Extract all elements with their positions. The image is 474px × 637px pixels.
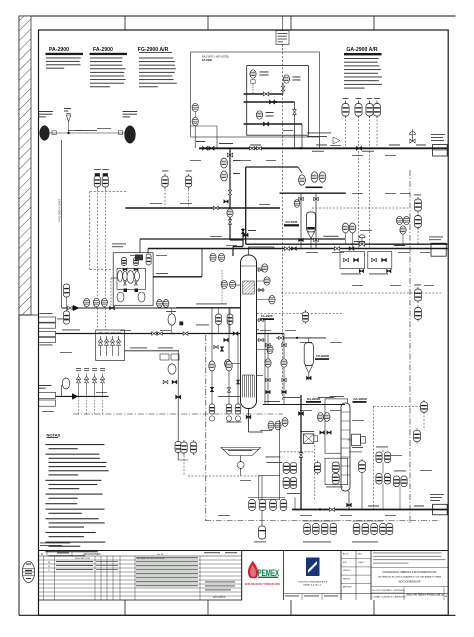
svg-text:ESC.: ESC.	[343, 562, 348, 564]
svg-text:MM.: MM.	[358, 554, 362, 556]
svg-text:FO-2905: FO-2905	[286, 220, 298, 224]
svg-text:DESCRIPCION: DESCRIPCION	[75, 558, 91, 560]
svg-text:No. DE CONTRATO: 418235824: No. DE CONTRATO: 418235824	[373, 589, 406, 592]
svg-text:No. M: No. M	[157, 554, 163, 556]
svg-text:PA-2900: PA-2900	[49, 47, 69, 53]
svg-text:FO-2905R: FO-2905R	[316, 354, 329, 358]
svg-text:FA-2900: FA-2900	[202, 58, 213, 62]
svg-text:DIAVAZ, S.A. DE C.V.: DIAVAZ, S.A. DE C.V.	[303, 584, 322, 587]
svg-text:NOTAS: NOTAS	[47, 433, 61, 438]
svg-text:FA-2905: FA-2905	[261, 314, 273, 318]
svg-text:E: E	[444, 595, 448, 597]
svg-text:REVISIONES: REVISIONES	[83, 552, 100, 556]
svg-text:APV-2007A: APV-2007A	[213, 596, 226, 599]
svg-text:GA-2900 A/R: GA-2900 A/R	[346, 47, 377, 53]
svg-text:DIBUJO: DIBUJO	[343, 570, 351, 572]
svg-text:APROBO: APROBO	[343, 586, 352, 589]
svg-text:S/ESC.: S/ESC.	[358, 562, 365, 564]
svg-text:DIAGRAMA DE TUBERIAS E INSTRUM: DIAGRAMA DE TUBERIAS E INSTRUMENTACION	[383, 571, 437, 574]
svg-text:MOTOGENERADOR: MOTOGENERADOR	[399, 580, 421, 583]
svg-text:BA 5 (PG Y HG VISTE): BA 5 (PG Y HG VISTE)	[202, 55, 229, 59]
svg-text:FA-2900: FA-2900	[93, 47, 113, 53]
svg-text:DA-2900R: DA-2900R	[354, 397, 367, 401]
svg-text:REVISO: REVISO	[343, 578, 351, 580]
svg-text:DICG-VR-TBEAA-44-BD (2 DE 3): DICG-VR-TBEAA-44-BD (2 DE 3)	[407, 592, 444, 596]
svg-text:SISTEMA DE ACONDICIONAMIENTO D: SISTEMA DE ACONDICIONAMIENTO DE GAS AMAR…	[378, 576, 442, 579]
svg-text:LUGAR: SONDA DE CAMPECHE: LUGAR: SONDA DE CAMPECHE	[373, 596, 407, 599]
svg-text:EXPLORACIÓN Y PRODUCCIÓN: EXPLORACIÓN Y PRODUCCIÓN	[245, 581, 280, 586]
svg-text:ACOT.: ACOT.	[343, 553, 349, 556]
svg-text:CONSTRUCTORA SUBACUATICA: CONSTRUCTORA SUBACUATICA	[298, 581, 328, 584]
svg-text:PEMEX: PEMEX	[258, 568, 280, 578]
svg-text:P-PG-2900-X-CAMT: P-PG-2900-X-CAMT	[59, 199, 62, 222]
